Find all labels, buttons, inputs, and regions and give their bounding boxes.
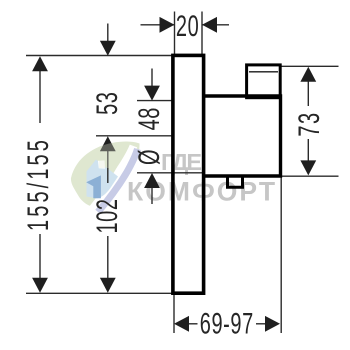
arrow 102 bottom [100,278,116,293]
watermark house [87,160,119,199]
handle knob [247,65,281,98]
wire dim 53 top [107,24,109,43]
svg-text:69-97: 69-97 [200,308,254,341]
wire dim 155 top [39,59,41,123]
wire center line [96,135,175,137]
svg-text:155/155: 155/155 [22,137,55,231]
wire dim 155 bottom [39,234,41,290]
wire dim 73 top [307,81,309,106]
watermark ribbon gap [104,153,142,213]
wire dim 20 left [141,24,175,26]
arrow d48 top [144,86,160,101]
wire ext line handle top right [280,65,339,67]
handle seam line [249,71,278,73]
wire circle top tangent [137,100,175,102]
wire ext line plate right up [201,12,203,55]
arrow 155 bottom [32,278,48,293]
valve body [202,96,281,176]
wire ext line depth left [173,295,175,333]
wire dim 20 right [202,24,229,26]
watermark ribbon [98,149,138,212]
arrow 73 bottom [300,160,316,175]
arrow 20 left [160,17,175,33]
arrow 73 top [300,67,316,82]
bottom tab [228,177,243,187]
svg-text:102: 102 [91,198,124,233]
svg-text:53: 53 [91,91,124,114]
plate side view [173,55,204,293]
wire circle bottom tangent [137,172,202,174]
wire dim 73 bottom [307,139,309,161]
arrow 53 top [100,41,116,56]
wire ext line plate top left [26,55,175,57]
arrow 53 bottom 102 top [100,136,116,151]
wire ext line plate left up [174,12,176,55]
watermark chimney notch [98,160,105,168]
watermark logo leaf green [71,142,140,208]
svg-text:Ø 48: Ø 48 [133,107,166,165]
arrow 69-97 right [265,316,280,332]
arrow 155 top [32,56,48,71]
watermark arrow 1 [86,175,101,198]
wire ext line plate bottom left [26,292,175,294]
wire ext line depth right [280,178,282,334]
watermark swoosh white [90,146,134,212]
svg-text:20: 20 [176,10,199,43]
arrow 69-97 left [174,316,189,332]
svg-text:73: 73 [293,111,326,136]
wire dim d48 top [151,69,153,87]
wire dim 69-97 left [189,323,198,325]
wire dim 102 bottom [107,236,109,279]
svg-text:ГДЕ: ГДЕ [161,149,203,175]
wire dim 53-102 shared tail [107,150,109,183]
arrow d48 bottom [144,173,160,188]
wire dim d48 bottom [151,187,153,204]
arrow 20 right [202,17,217,33]
wire ext line body bottom right [282,175,339,177]
wire dim 69-97 right [256,323,266,325]
